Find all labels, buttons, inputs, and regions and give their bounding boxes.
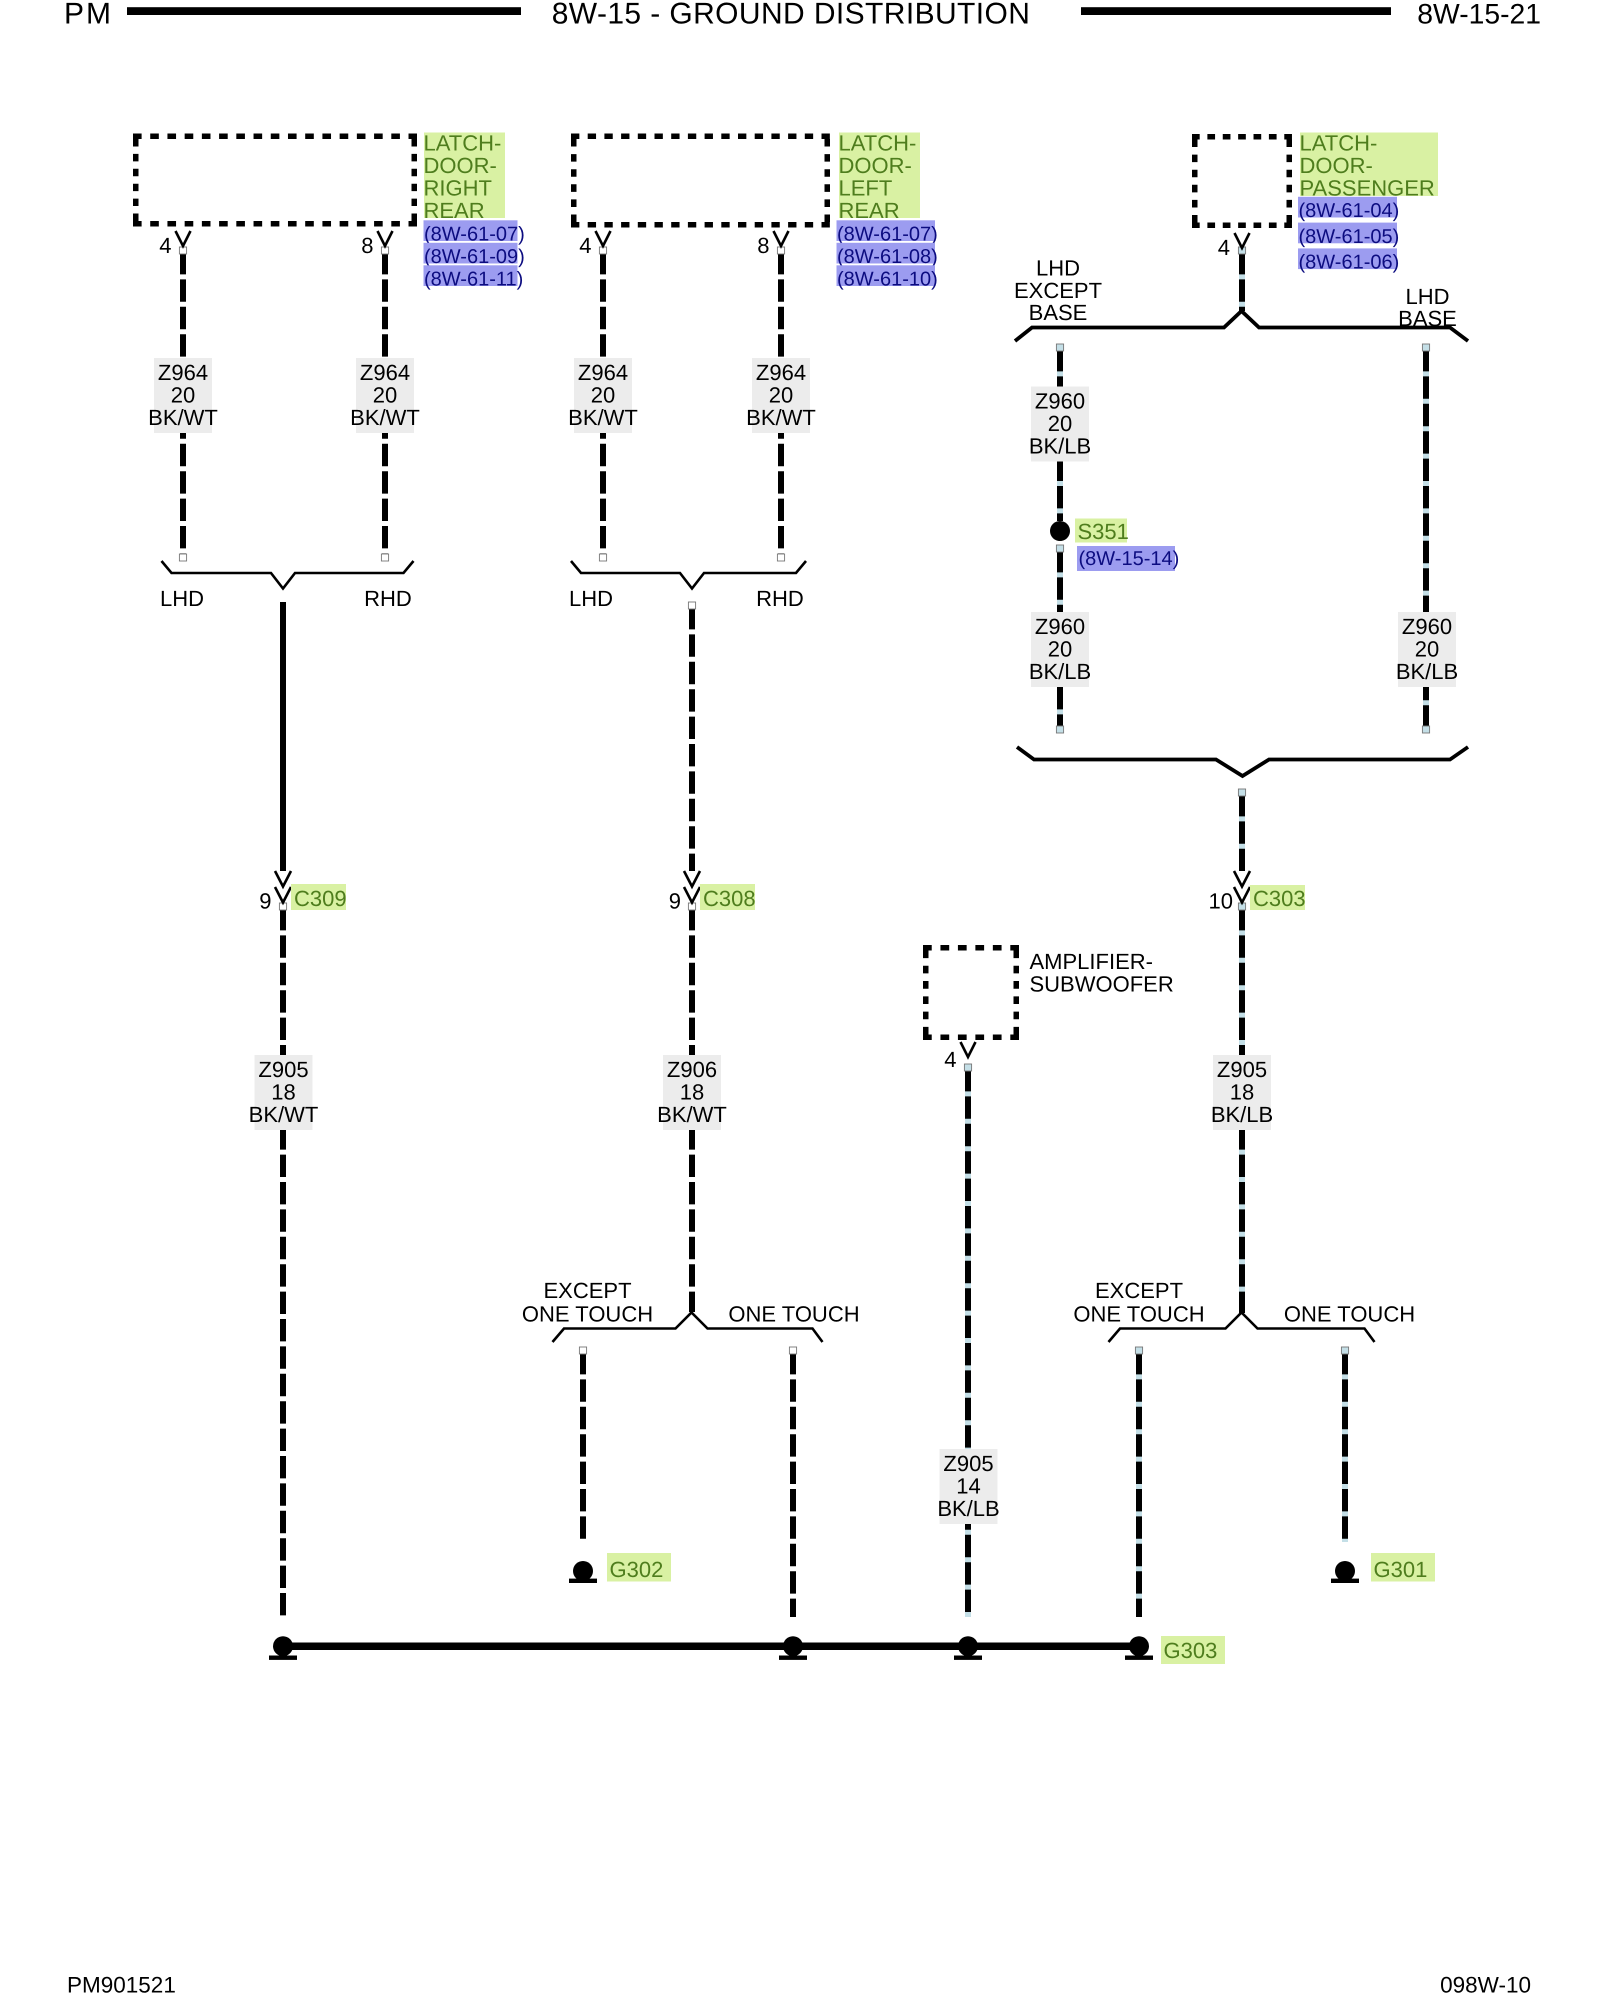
- svg-text:ONE TOUCH: ONE TOUCH: [1284, 1301, 1415, 1326]
- svg-text:9: 9: [669, 889, 681, 914]
- svg-text:Z905: Z905: [943, 1451, 993, 1476]
- svg-text:C309: C309: [294, 886, 347, 911]
- svg-text:(8W-61-04): (8W-61-04): [1299, 200, 1400, 222]
- svg-text:14: 14: [956, 1473, 980, 1498]
- svg-text:20: 20: [591, 382, 615, 407]
- svg-text:8: 8: [361, 233, 373, 258]
- svg-text:C303: C303: [1253, 886, 1306, 911]
- svg-text:20: 20: [1048, 411, 1072, 436]
- svg-text:LATCH-: LATCH-: [424, 131, 502, 156]
- svg-text:4: 4: [944, 1047, 956, 1072]
- svg-text:BK/LB: BK/LB: [1029, 659, 1091, 684]
- svg-text:Z906: Z906: [667, 1057, 717, 1082]
- svg-text:Z964: Z964: [158, 360, 208, 385]
- svg-text:(8W-61-11): (8W-61-11): [424, 269, 523, 291]
- svg-text:PM: PM: [64, 0, 113, 31]
- svg-text:DOOR-: DOOR-: [839, 153, 912, 178]
- svg-text:EXCEPT: EXCEPT: [543, 1278, 631, 1303]
- svg-text:(8W-61-06): (8W-61-06): [1299, 252, 1400, 274]
- svg-text:(8W-61-07): (8W-61-07): [837, 224, 938, 246]
- svg-text:Z964: Z964: [756, 360, 806, 385]
- svg-text:BASE: BASE: [1398, 306, 1457, 331]
- svg-text:RIGHT: RIGHT: [424, 175, 492, 200]
- svg-text:AMPLIFIER-: AMPLIFIER-: [1030, 949, 1153, 974]
- svg-text:BK/LB: BK/LB: [1029, 433, 1091, 458]
- svg-text:LHD: LHD: [160, 586, 204, 611]
- svg-text:20: 20: [769, 382, 793, 407]
- svg-text:BK/LB: BK/LB: [937, 1496, 999, 1521]
- svg-text:Z964: Z964: [360, 360, 410, 385]
- svg-text:8W-15-21: 8W-15-21: [1417, 0, 1541, 30]
- svg-text:S351: S351: [1078, 519, 1129, 544]
- svg-text:BASE: BASE: [1029, 300, 1088, 325]
- svg-text:(8W-61-05): (8W-61-05): [1299, 226, 1400, 248]
- svg-text:RHD: RHD: [756, 586, 804, 611]
- svg-text:ONE TOUCH: ONE TOUCH: [522, 1301, 653, 1326]
- svg-text:ONE TOUCH: ONE TOUCH: [728, 1301, 859, 1326]
- svg-text:Z960: Z960: [1035, 614, 1085, 639]
- svg-text:4: 4: [1218, 235, 1230, 260]
- svg-text:BK/WT: BK/WT: [148, 405, 218, 430]
- svg-text:BK/WT: BK/WT: [746, 405, 816, 430]
- svg-text:8W-15 - GROUND DISTRIBUTION: 8W-15 - GROUND DISTRIBUTION: [552, 0, 1031, 31]
- svg-text:BK/LB: BK/LB: [1396, 659, 1458, 684]
- svg-text:Z960: Z960: [1402, 614, 1452, 639]
- svg-text:(8W-61-10): (8W-61-10): [837, 269, 938, 291]
- svg-text:20: 20: [171, 382, 195, 407]
- svg-text:4: 4: [579, 233, 591, 258]
- svg-text:PASSENGER: PASSENGER: [1300, 175, 1435, 200]
- svg-text:18: 18: [271, 1079, 295, 1104]
- svg-text:DOOR-: DOOR-: [424, 153, 497, 178]
- svg-text:EXCEPT: EXCEPT: [1014, 278, 1102, 303]
- svg-text:REAR: REAR: [424, 198, 485, 223]
- svg-text:ONE TOUCH: ONE TOUCH: [1073, 1301, 1204, 1326]
- svg-text:RHD: RHD: [364, 586, 412, 611]
- svg-text:BK/WT: BK/WT: [249, 1102, 319, 1127]
- svg-text:BK/WT: BK/WT: [568, 405, 638, 430]
- svg-text:LHD: LHD: [1405, 284, 1449, 309]
- svg-text:BK/LB: BK/LB: [1211, 1102, 1273, 1127]
- svg-text:20: 20: [1415, 636, 1439, 661]
- svg-text:Z905: Z905: [258, 1057, 308, 1082]
- svg-text:(8W-61-09): (8W-61-09): [424, 246, 525, 268]
- svg-text:REAR: REAR: [839, 198, 900, 223]
- svg-text:G302: G302: [610, 1557, 664, 1582]
- svg-text:20: 20: [373, 382, 397, 407]
- svg-text:(8W-15-14): (8W-15-14): [1079, 548, 1180, 570]
- svg-text:Z905: Z905: [1217, 1057, 1267, 1082]
- svg-text:BK/WT: BK/WT: [657, 1102, 727, 1127]
- svg-text:LHD: LHD: [569, 586, 613, 611]
- svg-text:Z964: Z964: [578, 360, 628, 385]
- svg-text:BK/WT: BK/WT: [350, 405, 420, 430]
- svg-text:20: 20: [1048, 636, 1072, 661]
- svg-text:EXCEPT: EXCEPT: [1095, 1278, 1183, 1303]
- svg-text:098W-10: 098W-10: [1440, 1973, 1531, 1998]
- svg-text:G303: G303: [1164, 1638, 1218, 1663]
- svg-text:8: 8: [757, 233, 769, 258]
- svg-text:18: 18: [1230, 1079, 1254, 1104]
- svg-text:4: 4: [159, 233, 171, 258]
- svg-text:DOOR-: DOOR-: [1300, 153, 1373, 178]
- svg-text:LATCH-: LATCH-: [1300, 131, 1378, 156]
- svg-text:LATCH-: LATCH-: [839, 131, 917, 156]
- svg-text:G301: G301: [1374, 1557, 1428, 1582]
- svg-text:(8W-61-08): (8W-61-08): [837, 246, 938, 268]
- svg-text:LEFT: LEFT: [839, 175, 893, 200]
- svg-text:C308: C308: [703, 886, 756, 911]
- svg-text:PM901521: PM901521: [67, 1973, 176, 1998]
- svg-text:18: 18: [680, 1079, 704, 1104]
- svg-text:10: 10: [1209, 889, 1233, 914]
- svg-text:SUBWOOFER: SUBWOOFER: [1030, 971, 1174, 996]
- svg-text:Z960: Z960: [1035, 389, 1085, 414]
- svg-text:LHD: LHD: [1036, 255, 1080, 280]
- svg-text:9: 9: [259, 889, 271, 914]
- svg-text:(8W-61-07): (8W-61-07): [424, 224, 525, 246]
